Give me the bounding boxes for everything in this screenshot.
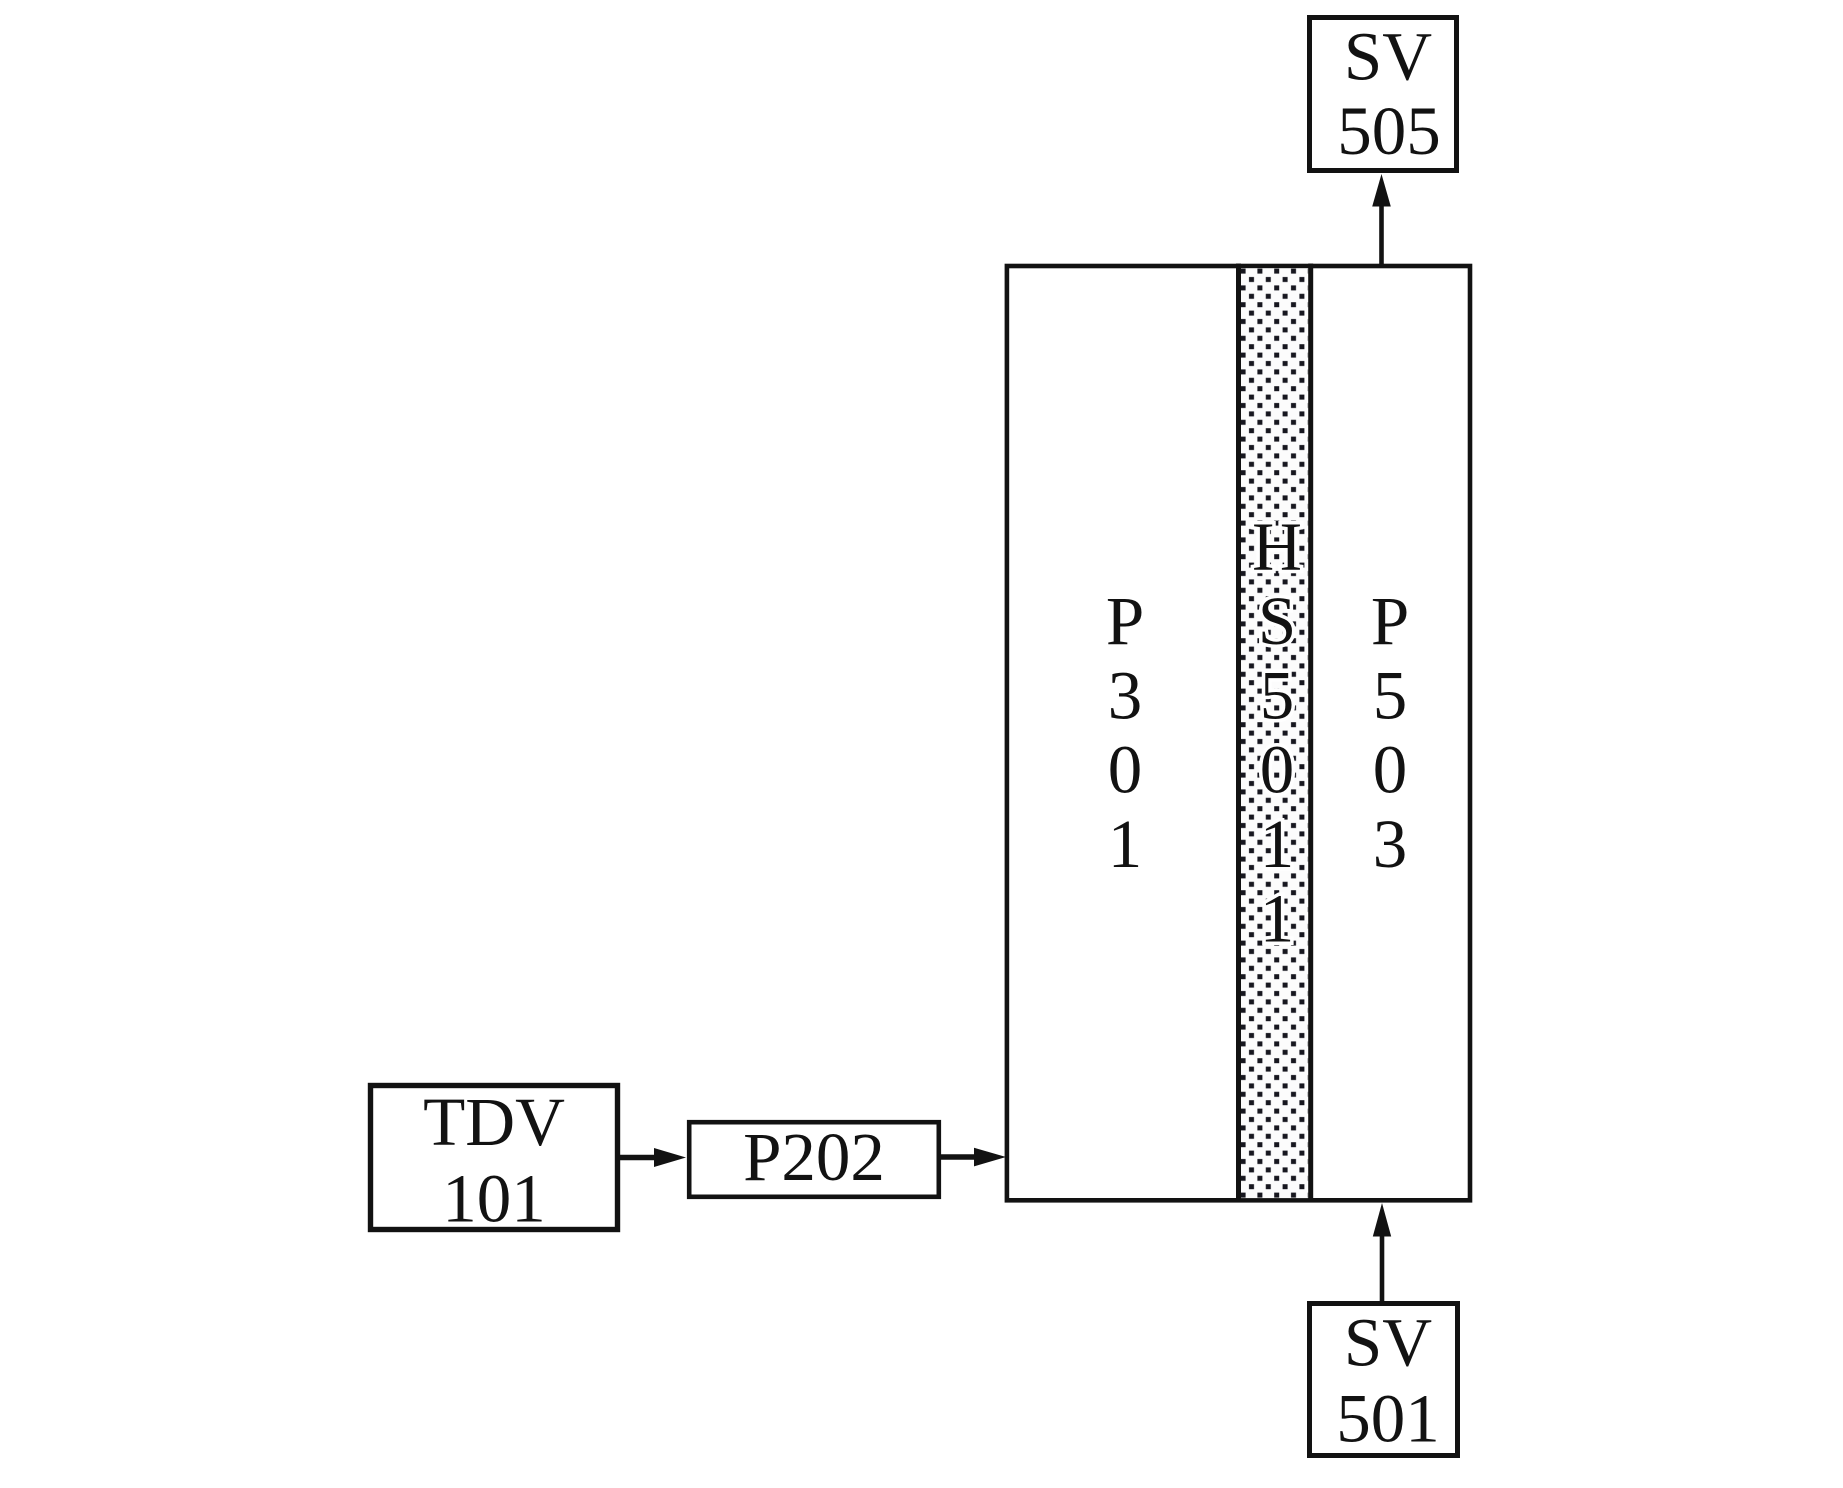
svg-text:501: 501 [1336, 1381, 1440, 1457]
svg-text:SV: SV [1344, 1305, 1432, 1381]
svg-text:P: P [1371, 583, 1409, 659]
svg-text:505: 505 [1337, 93, 1441, 169]
svg-text:1: 1 [1260, 806, 1295, 882]
svg-text:1: 1 [1108, 806, 1143, 882]
box P202 [689, 1119, 939, 1197]
svg-text:H: H [1252, 509, 1302, 585]
label P503 (vertical) [1371, 583, 1409, 882]
label HS5011 (vertical, over stipple with white halo) [1252, 509, 1302, 957]
svg-text:SV: SV [1344, 19, 1432, 95]
svg-text:TDV: TDV [423, 1084, 565, 1160]
wire vessel top to SV505 (arrow up) [1372, 174, 1391, 266]
svg-text:0: 0 [1260, 732, 1295, 808]
wire P202 to vessel (arrow right) [941, 1148, 1006, 1167]
label P301 (vertical) [1106, 583, 1144, 882]
svg-text:0: 0 [1373, 732, 1408, 808]
box SV501 [1310, 1304, 1458, 1457]
svg-text:0: 0 [1108, 732, 1143, 808]
box SV505 [1310, 18, 1457, 171]
svg-text:1: 1 [1260, 880, 1295, 956]
svg-text:3: 3 [1108, 657, 1143, 733]
svg-text:5: 5 [1373, 657, 1408, 733]
svg-text:3: 3 [1373, 806, 1408, 882]
wire SV501 to vessel bottom (arrow up) [1373, 1203, 1391, 1301]
svg-text:P: P [1106, 583, 1144, 659]
svg-text:P202: P202 [743, 1119, 885, 1195]
box TDV101 [371, 1084, 618, 1237]
vessel body P301/P503 outer rectangle [1007, 266, 1470, 1200]
wire TDV101 to P202 (arrow right) [620, 1148, 686, 1167]
membrane band HS5011 (stippled column) [1239, 264, 1311, 1201]
svg-text:5: 5 [1260, 657, 1295, 733]
svg-text:101: 101 [442, 1161, 546, 1237]
svg-text:S: S [1258, 583, 1296, 659]
